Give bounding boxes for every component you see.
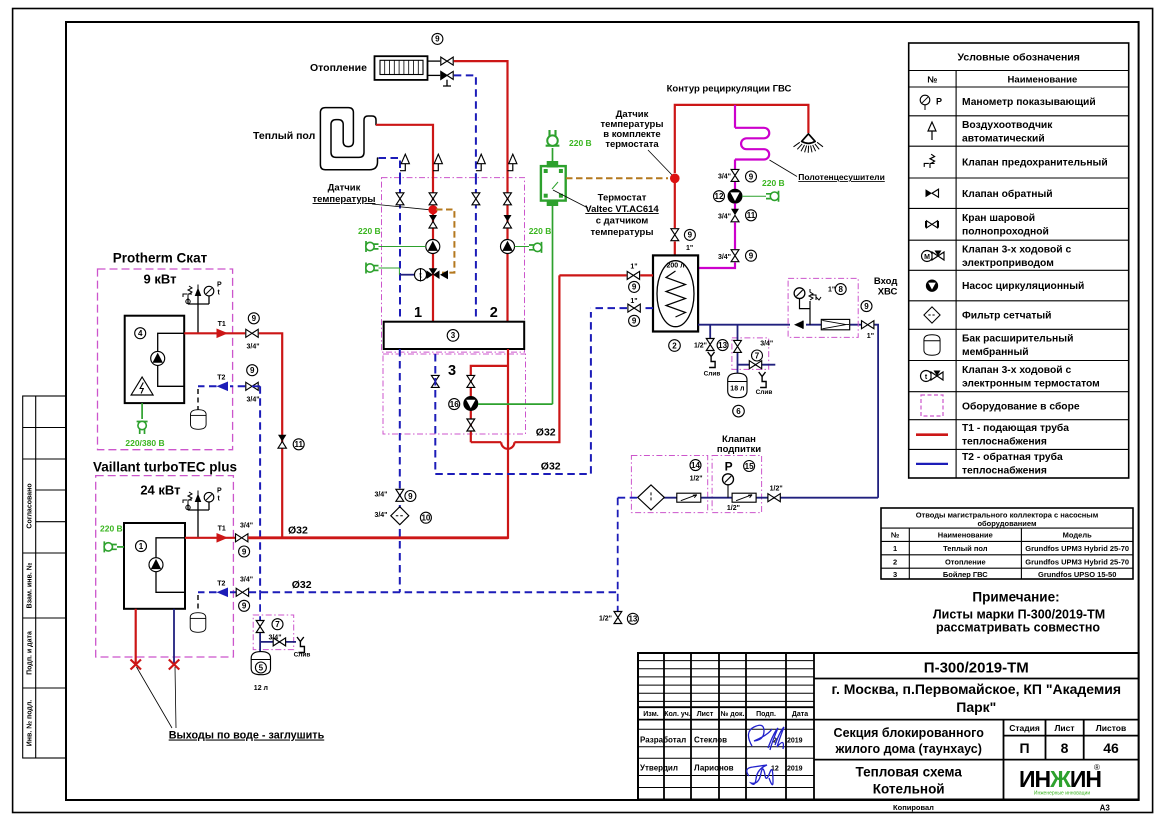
svg-text:T1: T1 (218, 321, 226, 328)
svg-text:Взам. инв. №: Взам. инв. № (26, 562, 34, 608)
svg-text:1": 1" (686, 245, 693, 252)
svg-text:2: 2 (893, 558, 897, 567)
svg-text:№ док.: № док. (721, 710, 745, 718)
svg-text:с датчиком: с датчиком (596, 216, 649, 227)
svg-text:Воздухоотводчик: Воздухоотводчик (962, 120, 1053, 131)
svg-text:Подп. и дата: Подп. и дата (27, 631, 34, 675)
svg-text:автоматический: автоматический (962, 134, 1045, 145)
svg-text:9: 9 (408, 492, 413, 501)
svg-text:А3: А3 (1100, 804, 1111, 813)
svg-text:Инв. № подл.: Инв. № подл. (26, 700, 34, 747)
svg-text:рассматривать совместно: рассматривать совместно (936, 621, 1100, 635)
svg-text:Утвердил: Утвердил (640, 764, 678, 773)
svg-text:T2: T2 (217, 581, 225, 588)
svg-text:16: 16 (450, 400, 459, 409)
svg-text:8: 8 (1061, 740, 1069, 756)
svg-text:Р: Р (936, 97, 942, 107)
svg-text:Полотенцесушители: Полотенцесушители (798, 172, 885, 182)
svg-text:1: 1 (139, 542, 144, 551)
svg-text:Фильтр сетчатый: Фильтр сетчатый (962, 311, 1052, 322)
svg-text:Насос циркуляционный: Насос циркуляционный (962, 281, 1084, 292)
svg-text:Ларионов: Ларионов (694, 764, 734, 773)
svg-text:2019: 2019 (787, 738, 803, 745)
svg-text:Котельной: Котельной (873, 782, 945, 797)
svg-text:1": 1" (867, 333, 874, 340)
svg-text:Лист: Лист (1054, 723, 1074, 733)
svg-text:Манометр показывающий: Манометр показывающий (962, 97, 1096, 108)
svg-text:9 кВт: 9 кВт (144, 272, 177, 287)
svg-text:Копировал: Копировал (893, 803, 934, 812)
svg-text:3/4": 3/4" (760, 340, 773, 347)
svg-text:Бойлер ГВС: Бойлер ГВС (943, 570, 988, 579)
svg-text:11: 11 (294, 440, 303, 449)
svg-text:оборудованием: оборудованием (977, 519, 1036, 528)
svg-text:1": 1" (630, 298, 637, 305)
svg-text:18 л: 18 л (730, 386, 744, 393)
svg-text:3: 3 (448, 363, 456, 379)
svg-text:Grundfos UPSO 15-50: Grundfos UPSO 15-50 (1038, 570, 1116, 579)
svg-text:Отопление: Отопление (310, 62, 367, 74)
svg-text:13: 13 (628, 615, 637, 624)
svg-text:Теплый пол: Теплый пол (943, 544, 988, 553)
svg-text:мембранный: мембранный (962, 346, 1029, 358)
svg-text:1: 1 (414, 305, 422, 321)
svg-text:2019: 2019 (787, 766, 803, 773)
svg-text:3/4": 3/4" (240, 577, 253, 584)
svg-text:Датчик: Датчик (328, 183, 361, 194)
svg-text:Слив: Слив (756, 389, 773, 396)
svg-text:жилого дома (таунхаус): жилого дома (таунхаус) (834, 742, 981, 756)
svg-text:12 л: 12 л (254, 685, 268, 692)
svg-text:Условные обозначения: Условные обозначения (958, 52, 1080, 64)
svg-text:Клапан предохранительный: Клапан предохранительный (962, 158, 1108, 169)
svg-text:электроприводом: электроприводом (962, 258, 1054, 269)
svg-text:220/380 В: 220/380 В (125, 438, 164, 448)
svg-text:Т1 - подающая труба: Т1 - подающая труба (962, 422, 1069, 434)
svg-text:Парк": Парк" (956, 699, 996, 715)
svg-text:220 В: 220 В (762, 178, 785, 188)
svg-text:Листы марки П-300/2019-ТМ: Листы марки П-300/2019-ТМ (933, 607, 1105, 621)
svg-text:Grundfos UPM3 Hybrid 25-70: Grundfos UPM3 Hybrid 25-70 (1025, 544, 1129, 553)
svg-text:T1: T1 (218, 526, 226, 533)
svg-text:Выходы по воде - заглушить: Выходы по воде - заглушить (169, 730, 325, 742)
svg-text:Клапан 3-х ходовой с: Клапан 3-х ходовой с (962, 245, 1071, 256)
svg-text:9: 9 (749, 172, 754, 181)
svg-text:220 В: 220 В (529, 226, 552, 236)
svg-text:9: 9 (632, 283, 637, 292)
svg-text:10: 10 (421, 514, 430, 523)
svg-text:1/2": 1/2" (690, 476, 703, 483)
svg-text:подпитки: подпитки (717, 444, 761, 455)
svg-text:220 В: 220 В (569, 138, 592, 148)
svg-text:Ø32: Ø32 (292, 579, 312, 591)
svg-text:Стеклов: Стеклов (694, 736, 727, 745)
svg-text:термостата: термостата (605, 139, 659, 150)
svg-text:9: 9 (749, 252, 754, 261)
svg-text:Листов: Листов (1096, 723, 1126, 733)
svg-text:Protherm Скат: Protherm Скат (113, 251, 208, 266)
svg-text:13: 13 (718, 341, 727, 350)
svg-text:8: 8 (838, 285, 843, 294)
svg-text:Дата: Дата (792, 711, 808, 718)
svg-text:3/4": 3/4" (240, 523, 253, 530)
svg-text:11: 11 (747, 211, 756, 220)
svg-text:Ø32: Ø32 (541, 460, 561, 472)
svg-text:Vaillant turboTEC plus: Vaillant turboTEC plus (93, 460, 237, 475)
svg-text:Кран шаровой: Кран шаровой (962, 213, 1035, 224)
svg-text:г. Москва, п.Первомайское, КП: г. Москва, п.Первомайское, КП "Академия (832, 681, 1122, 697)
svg-text:220 В: 220 В (358, 226, 381, 236)
svg-text:220 В: 220 В (100, 524, 123, 534)
svg-text:температуры: температуры (591, 227, 654, 238)
svg-text:®: ® (1094, 763, 1100, 772)
svg-text:Инженерные инновации: Инженерные инновации (1034, 791, 1090, 797)
svg-text:1/2": 1/2" (694, 343, 707, 350)
svg-text:Клапан 3-х ходовой с: Клапан 3-х ходовой с (962, 365, 1071, 376)
svg-text:Стадия: Стадия (1009, 723, 1040, 733)
svg-text:5: 5 (259, 663, 264, 672)
svg-text:3/4": 3/4" (247, 397, 260, 404)
svg-text:4: 4 (138, 329, 143, 338)
svg-text:Кол. уч.: Кол. уч. (664, 711, 691, 718)
svg-text:Т2 - обратная труба: Т2 - обратная труба (962, 451, 1063, 463)
svg-text:T2: T2 (217, 375, 225, 382)
svg-text:№: № (891, 531, 899, 540)
svg-text:3: 3 (451, 331, 456, 340)
svg-text:Оборудование в сборе: Оборудование в сборе (962, 400, 1080, 412)
svg-text:3/4": 3/4" (268, 635, 281, 642)
svg-text:Отопление: Отопление (945, 558, 986, 567)
svg-text:3/4": 3/4" (718, 254, 731, 261)
svg-text:Тепловая схема: Тепловая схема (856, 765, 963, 780)
svg-text:3: 3 (893, 570, 897, 579)
svg-text:6: 6 (736, 407, 741, 416)
svg-text:Подп.: Подп. (756, 711, 776, 718)
svg-text:ИНЖИН: ИНЖИН (1019, 766, 1101, 792)
svg-text:температуры: температуры (313, 194, 376, 205)
svg-text:12: 12 (715, 192, 724, 201)
svg-text:Лист: Лист (697, 711, 714, 718)
svg-text:P: P (217, 488, 222, 495)
svg-text:Ø32: Ø32 (536, 426, 556, 438)
svg-text:46: 46 (1103, 740, 1119, 756)
svg-text:Grundfos UPM3 Hybrid 25-70: Grundfos UPM3 Hybrid 25-70 (1025, 558, 1129, 567)
svg-text:14: 14 (691, 461, 700, 470)
svg-text:Клапан обратный: Клапан обратный (962, 188, 1053, 200)
svg-text:Вход: Вход (874, 276, 898, 287)
svg-text:Наименование: Наименование (938, 531, 993, 540)
svg-text:Наименование: Наименование (1008, 75, 1078, 86)
svg-text:2: 2 (490, 305, 498, 321)
svg-text:9: 9 (864, 302, 869, 311)
svg-text:1/2": 1/2" (727, 505, 740, 512)
svg-text:Слив: Слив (704, 371, 721, 378)
svg-text:P: P (217, 282, 222, 289)
svg-text:Термостат: Термостат (598, 193, 647, 204)
svg-text:Слив: Слив (294, 652, 311, 659)
svg-text:1/2": 1/2" (770, 486, 783, 493)
svg-text:3/4": 3/4" (247, 344, 260, 351)
svg-text:Valtec VT.AC614: Valtec VT.AC614 (585, 204, 659, 215)
svg-text:Теплый пол: Теплый пол (253, 130, 315, 142)
svg-text:1": 1" (828, 287, 835, 294)
svg-text:9: 9 (242, 602, 247, 611)
svg-text:3/4": 3/4" (374, 492, 387, 499)
svg-text:Изм.: Изм. (643, 711, 659, 718)
svg-text:24 кВт: 24 кВт (140, 483, 180, 498)
svg-text:1/2": 1/2" (599, 616, 612, 623)
svg-text:200 л: 200 л (666, 263, 684, 270)
svg-text:П: П (1019, 740, 1029, 756)
svg-text:7: 7 (755, 351, 760, 360)
svg-text:3/4": 3/4" (374, 512, 387, 519)
svg-text:теплоснабжения: теплоснабжения (962, 465, 1047, 477)
svg-text:М: М (924, 254, 930, 261)
svg-text:теплоснабжения: теплоснабжения (962, 436, 1047, 448)
svg-text:9: 9 (250, 366, 255, 375)
svg-text:полнопроходной: полнопроходной (962, 227, 1049, 238)
svg-text:Примечание:: Примечание: (972, 590, 1059, 605)
svg-text:2: 2 (672, 341, 677, 350)
svg-text:Бак расширительный: Бак расширительный (962, 334, 1073, 345)
svg-text:Ø32: Ø32 (288, 525, 308, 537)
svg-text:Контур рециркуляции ГВС: Контур рециркуляции ГВС (667, 84, 792, 95)
svg-text:Согласовано: Согласовано (27, 483, 34, 528)
svg-text:Разработал: Разработал (640, 736, 686, 745)
svg-text:3/4": 3/4" (718, 213, 731, 220)
svg-text:П-300/2019-ТМ: П-300/2019-ТМ (924, 660, 1029, 677)
svg-text:Секция блокированного: Секция блокированного (834, 726, 985, 740)
svg-text:3/4": 3/4" (718, 174, 731, 181)
svg-text:9: 9 (435, 35, 440, 44)
svg-text:Модель: Модель (1063, 531, 1092, 540)
svg-text:электронным термостатом: электронным термостатом (962, 378, 1100, 389)
svg-text:P: P (725, 460, 733, 474)
svg-text:1: 1 (893, 544, 897, 553)
svg-text:9: 9 (632, 317, 637, 326)
svg-text:15: 15 (745, 462, 754, 471)
svg-text:ХВС: ХВС (878, 287, 898, 298)
svg-text:1": 1" (630, 263, 637, 270)
svg-text:9: 9 (688, 231, 693, 240)
svg-text:№: № (927, 75, 937, 85)
svg-text:9: 9 (242, 547, 247, 556)
svg-text:9: 9 (252, 314, 257, 323)
svg-text:7: 7 (275, 620, 280, 629)
